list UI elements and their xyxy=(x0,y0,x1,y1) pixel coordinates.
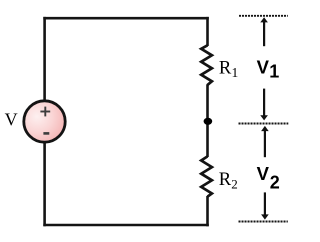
svg-text:2: 2 xyxy=(270,172,280,192)
voltage source V (circle) xyxy=(24,101,65,142)
resistor R2 xyxy=(201,156,212,196)
wire left upper xyxy=(43,17,46,101)
svg-text:1: 1 xyxy=(232,65,239,80)
dotted line top xyxy=(239,15,288,17)
minus sign xyxy=(43,132,49,135)
node junction dot xyxy=(204,118,213,125)
wire bottom xyxy=(43,224,209,227)
svg-text:V: V xyxy=(5,109,18,129)
plus sign xyxy=(40,107,50,117)
wire right upper lead xyxy=(206,17,209,46)
resistor R1 xyxy=(201,45,212,85)
arrow down V1 xyxy=(260,89,268,121)
arrow up V2 xyxy=(261,126,269,157)
svg-text:1: 1 xyxy=(269,61,279,81)
wire right lower lead xyxy=(206,196,209,226)
arrow down V2 xyxy=(261,192,269,219)
svg-text:V: V xyxy=(257,163,270,184)
svg-text:R: R xyxy=(219,170,232,190)
svg-text:2: 2 xyxy=(231,177,238,192)
svg-text:V: V xyxy=(257,56,270,77)
svg-text:R: R xyxy=(219,58,232,78)
dotted line bottom xyxy=(239,221,288,223)
dotted line middle xyxy=(239,123,289,125)
wire left lower xyxy=(43,142,46,226)
wire top xyxy=(43,17,209,20)
wire right middle (R1 to R2) xyxy=(206,84,209,157)
arrow up V1 xyxy=(260,17,268,46)
